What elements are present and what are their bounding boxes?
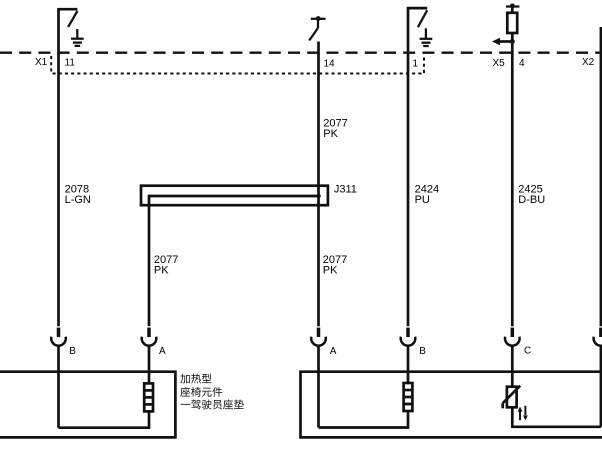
wire: splice branch 2077 <box>149 196 319 326</box>
power feed bar at top of wire 2425 <box>506 5 519 7</box>
connector terminal C (W5) <box>505 328 520 387</box>
svg-text:B: B <box>419 346 426 357</box>
wire: right edge vertical W6 <box>600 27 602 326</box>
svg-text:PU: PU <box>415 194 430 206</box>
svg-text:B: B <box>69 346 76 357</box>
svg-text:PK: PK <box>154 265 169 277</box>
component box: heated seat element left <box>0 372 175 438</box>
ground G2 <box>420 28 433 46</box>
svg-text:PK: PK <box>323 128 338 140</box>
connector terminal A (W3) <box>311 328 326 428</box>
connector terminal B (W4) <box>401 328 416 383</box>
svg-text:1: 1 <box>413 59 419 70</box>
svg-text:X5: X5 <box>493 58 506 69</box>
heater element E2 <box>404 383 413 411</box>
resistor R (fuse element) <box>507 13 517 33</box>
label: component name chinese <box>180 374 244 410</box>
svg-text:PK: PK <box>323 265 338 277</box>
svg-text:A: A <box>159 346 166 357</box>
wire: U link W1-W2 <box>59 411 150 427</box>
splice J311 box <box>141 186 328 206</box>
wire: stub into resistor <box>511 7 514 13</box>
wire: resistor to junction <box>511 33 514 326</box>
wire: component boundary dashed line <box>0 52 602 54</box>
connector terminal (W6, clipped) <box>594 328 602 427</box>
wire: circuit 2078 vertical W1 <box>59 9 78 326</box>
connector terminal A (W2) <box>142 328 157 383</box>
svg-text:A: A <box>330 346 337 357</box>
node: junction dot on W5 <box>510 39 515 44</box>
svg-text:X1: X1 <box>35 57 48 68</box>
svg-text:L-GN: L-GN <box>65 194 91 206</box>
svg-text:4: 4 <box>519 58 525 69</box>
thermistor RT <box>503 386 521 409</box>
connector terminal B (W1) <box>51 328 66 428</box>
node: splice junction dot <box>316 194 320 198</box>
svg-text:J311: J311 <box>334 184 357 196</box>
svg-text:D-BU: D-BU <box>518 194 545 206</box>
svg-text:X2: X2 <box>582 57 595 68</box>
wire: continuation slash W3 <box>309 28 318 41</box>
ground G1 <box>71 29 84 46</box>
svg-text:11: 11 <box>65 58 76 69</box>
wire: circuit 2424 vertical W4 <box>408 8 427 326</box>
wire: U link W3-W4 <box>319 411 409 428</box>
svg-text:14: 14 <box>324 59 336 70</box>
svg-text:C: C <box>524 346 531 357</box>
arrows up/down beside thermistor <box>518 406 528 421</box>
component box: heated seat element right <box>301 372 602 438</box>
wire: arrow tap to left <box>498 40 512 43</box>
wire: circuit 2077 vertical W3 <box>317 42 320 327</box>
wire: continuation slash W4 <box>418 10 427 27</box>
wire: continuation slash W1 <box>68 11 77 27</box>
heater element E1 <box>144 383 153 411</box>
splice bar at top of wire 2077 <box>311 18 326 20</box>
wire: thermistor to right U link <box>512 407 601 427</box>
node X1: connector dotted outline <box>50 56 52 74</box>
